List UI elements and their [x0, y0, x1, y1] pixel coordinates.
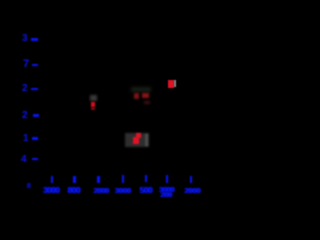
data marker group 4: red mark lower-left lobe	[133, 137, 139, 143]
data marker group 2: dim red glyph D	[142, 93, 149, 98]
data marker group 4: red mark upper-right lobe	[136, 133, 141, 138]
y-axis label 1	[23, 133, 29, 144]
data marker group 4: gray box lighter right edge	[145, 134, 148, 147]
x tick E	[122, 175, 125, 183]
data marker group 3: bright red square	[168, 80, 174, 88]
data marker group 2: faint gray-green strip	[131, 87, 151, 92]
y tick 6	[32, 158, 38, 161]
x tick H	[190, 176, 193, 184]
x tick B	[51, 176, 54, 184]
y tick 4	[33, 114, 39, 117]
data marker group 1: red bar lower dark part	[91, 107, 94, 110]
x label E	[115, 186, 131, 195]
x tick G	[166, 175, 169, 183]
x tick F	[145, 175, 148, 183]
data marker group 1: red bar	[91, 102, 95, 107]
x label D	[94, 186, 109, 195]
y-axis label 3 (top)	[22, 33, 28, 44]
y tick 1	[31, 38, 38, 41]
x label G line1	[159, 185, 174, 194]
y-axis label 2	[22, 83, 28, 94]
y-axis label 4 (bottom)	[21, 154, 27, 165]
y tick 2	[32, 64, 38, 67]
x label F	[140, 186, 152, 195]
x-axis origin label 0	[27, 181, 31, 190]
data marker group 3: gray right edge	[174, 80, 176, 87]
x label C	[68, 186, 80, 195]
y-axis label 2b	[22, 110, 28, 121]
data marker group 2: faint red tail	[144, 101, 150, 105]
y tick 3	[31, 88, 38, 91]
data marker group 2: dim red glyph r	[134, 93, 139, 98]
data marker group 1: gray smudge	[90, 95, 97, 101]
x label G line2	[160, 190, 171, 199]
y tick 5	[32, 137, 39, 140]
x tick D	[97, 176, 100, 184]
x label H	[184, 186, 200, 195]
x tick C	[73, 176, 76, 184]
x label B	[43, 186, 59, 195]
y-axis label 7	[23, 58, 29, 70]
data marker group 4: gray box	[125, 133, 149, 147]
